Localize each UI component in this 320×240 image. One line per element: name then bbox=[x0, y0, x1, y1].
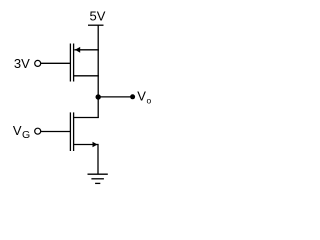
svg-text:G: G bbox=[22, 129, 30, 141]
transistor M1 source lead bbox=[74, 75, 99, 77]
svg-text:5V: 5V bbox=[90, 9, 106, 24]
svg-text:o: o bbox=[147, 96, 152, 106]
input terminal circle VG bbox=[35, 128, 41, 134]
input terminal circle 3V bbox=[35, 60, 41, 66]
svg-text:V: V bbox=[13, 123, 22, 138]
junction dot at node Vo bbox=[96, 94, 101, 99]
transistor M1 source arrow (PMOS, points into channel) bbox=[75, 47, 80, 53]
transistor M1 channel bar bbox=[73, 44, 75, 82]
svg-text:3V: 3V bbox=[14, 56, 30, 71]
ground bar 2 bbox=[91, 178, 104, 180]
ground bar 3 bbox=[95, 182, 100, 184]
transistor M2 gate bar bbox=[69, 112, 71, 151]
wire node to Vo terminal bbox=[98, 96, 130, 98]
ground bar 1 bbox=[88, 173, 108, 175]
transistor M2 channel bar bbox=[73, 112, 75, 151]
wire M2 source to ground bbox=[97, 144, 99, 174]
svg-text:V: V bbox=[137, 89, 146, 104]
transistor M1 gate bar bbox=[69, 44, 71, 82]
wire VG to M2 gate bbox=[41, 131, 70, 133]
terminal dot Vo bbox=[130, 94, 135, 99]
wire M1 source to M2 drain (node Vo rail) bbox=[97, 50, 99, 118]
wire 5V to M1 drain bbox=[97, 25, 99, 50]
transistor M2 source arrow (NMOS, points out) bbox=[93, 142, 98, 148]
transistor M2 source lead bbox=[74, 144, 98, 146]
transistor M2 (NMOS) drain lead bbox=[74, 117, 99, 119]
transistor M1 (PMOS) drain lead bbox=[74, 49, 98, 51]
5V supply terminal bar bbox=[88, 24, 104, 26]
wire 3V to M1 gate bbox=[41, 62, 70, 64]
